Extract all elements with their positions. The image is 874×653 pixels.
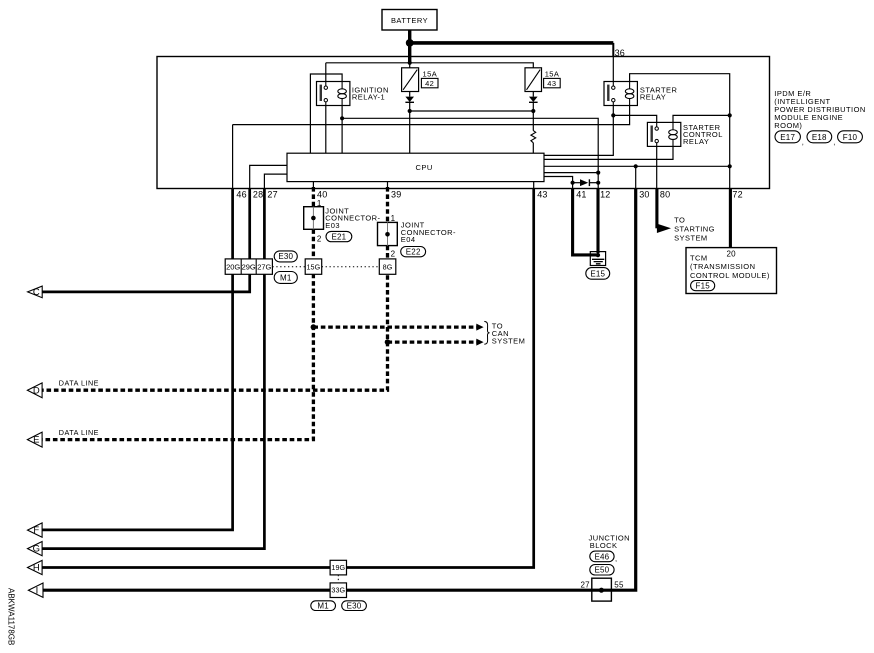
svg-text:CPU: CPU: [416, 163, 433, 172]
svg-text:39: 39: [391, 190, 401, 200]
svg-text:DATA LINE: DATA LINE: [59, 378, 99, 387]
svg-text:CONTROL MODULE): CONTROL MODULE): [690, 271, 770, 280]
svg-text:RELAY: RELAY: [683, 137, 709, 146]
svg-text:E22: E22: [406, 248, 421, 257]
svg-text:H: H: [33, 563, 40, 574]
svg-text:28: 28: [253, 190, 263, 200]
svg-text:E17: E17: [780, 133, 795, 142]
svg-text:72: 72: [732, 190, 742, 200]
svg-text:20G: 20G: [226, 263, 240, 272]
svg-text:2: 2: [391, 249, 396, 258]
svg-text:E03: E03: [325, 221, 340, 230]
svg-text:SYSTEM: SYSTEM: [492, 337, 526, 346]
svg-text:46: 46: [236, 190, 246, 200]
svg-text:E15: E15: [590, 269, 605, 278]
svg-text:,: ,: [802, 138, 805, 147]
svg-text:SYSTEM: SYSTEM: [674, 233, 708, 242]
svg-text:15A: 15A: [423, 69, 438, 78]
svg-text:E46: E46: [594, 552, 609, 561]
svg-text:TCM: TCM: [690, 253, 708, 262]
svg-text:STARTING: STARTING: [674, 225, 715, 234]
svg-text:43: 43: [537, 190, 547, 200]
svg-text:15G: 15G: [306, 262, 320, 271]
svg-text:BATTERY: BATTERY: [391, 16, 428, 25]
svg-text:,: ,: [615, 554, 618, 563]
svg-text:55: 55: [614, 580, 624, 589]
svg-text:E21: E21: [331, 232, 346, 241]
svg-text:27: 27: [267, 190, 277, 200]
svg-text:E50: E50: [594, 566, 609, 575]
svg-text:27G: 27G: [257, 263, 271, 272]
svg-text:E18: E18: [812, 133, 827, 142]
svg-text:G: G: [33, 544, 40, 555]
svg-text:12: 12: [600, 190, 610, 200]
svg-text:36: 36: [615, 48, 625, 58]
svg-text:ABKWA1178GB: ABKWA1178GB: [7, 588, 16, 645]
svg-text:C: C: [33, 287, 40, 298]
svg-text:20: 20: [727, 249, 737, 258]
svg-text:30: 30: [639, 190, 649, 200]
svg-text:8G: 8G: [383, 262, 393, 271]
svg-text:15A: 15A: [545, 69, 560, 78]
svg-text:33G: 33G: [331, 586, 345, 595]
svg-text:BLOCK: BLOCK: [590, 541, 618, 550]
svg-text:1: 1: [391, 214, 396, 223]
svg-text:D: D: [33, 385, 40, 396]
svg-text:E04: E04: [401, 235, 416, 244]
svg-text:M1: M1: [317, 601, 329, 610]
svg-text:29G: 29G: [242, 263, 256, 272]
svg-text:RELAY-1: RELAY-1: [352, 93, 385, 102]
svg-text:80: 80: [660, 190, 670, 200]
svg-text:RELAY: RELAY: [640, 93, 666, 102]
svg-text:40: 40: [317, 190, 327, 200]
svg-text:TO: TO: [674, 216, 685, 225]
svg-text:ROOM): ROOM): [774, 121, 802, 130]
svg-text:F15: F15: [696, 282, 711, 291]
svg-text:43: 43: [547, 79, 556, 88]
svg-text:19G: 19G: [331, 563, 345, 572]
svg-text:E30: E30: [278, 252, 293, 261]
svg-text:F10: F10: [843, 133, 858, 142]
svg-text:42: 42: [425, 79, 434, 88]
svg-text:27: 27: [580, 580, 590, 589]
svg-text:(TRANSMISSION: (TRANSMISSION: [690, 262, 755, 271]
svg-text:F: F: [33, 525, 39, 536]
svg-text:,: ,: [833, 138, 836, 147]
svg-text:1: 1: [317, 199, 322, 208]
svg-text:I: I: [36, 585, 39, 596]
svg-text:E30: E30: [347, 601, 362, 610]
svg-text:M1: M1: [280, 274, 292, 283]
svg-text:2: 2: [317, 235, 322, 244]
svg-text:41: 41: [576, 190, 586, 200]
svg-text:DATA LINE: DATA LINE: [59, 428, 99, 437]
svg-text:E: E: [33, 435, 39, 446]
